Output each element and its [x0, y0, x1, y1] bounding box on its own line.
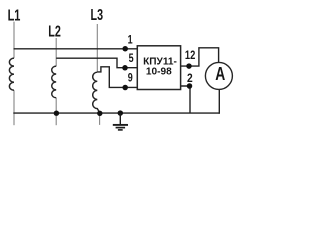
wire L1 lead (vertical, below coil through bus) [13, 90, 15, 125]
inductor L3 [93, 72, 100, 112]
wire pin 2 (box to down lead) [181, 86, 190, 113]
node bus-L3 junction [97, 111, 102, 116]
svg-text:9: 9 [128, 71, 133, 85]
svg-text:10-98: 10-98 [146, 67, 172, 78]
wire L2 lead (vertical, below coil through bus) [55, 98, 57, 125]
node bus-L2 junction [54, 111, 59, 116]
wire ammeter bottom to bus [218, 89, 220, 113]
wire pin 12 (box to ammeter loop) [181, 48, 219, 66]
ground [113, 113, 128, 130]
node pin 9 dot [122, 85, 128, 91]
wire L3 stub below bus [99, 113, 101, 125]
device U1 box [137, 46, 180, 90]
svg-text:5: 5 [129, 51, 134, 65]
node bus-ground junction [118, 110, 124, 116]
node pin 12 dot [186, 63, 192, 69]
inductor L1 [9, 58, 14, 90]
wire pin 1 (L1 to box) [14, 48, 138, 50]
wire bottom bus [13, 112, 219, 114]
svg-text:L3: L3 [91, 7, 104, 24]
wire pin 9 (L3 coil top to box, stepped) [97, 67, 137, 88]
ammeter U2 circle [205, 62, 232, 89]
node pin 2 dot [187, 83, 193, 89]
wire pin 5 (L2 to box with jog) [56, 58, 137, 67]
wire L3 lead (vertical, top) [96, 24, 98, 72]
node pin 1 dot [122, 46, 128, 52]
wire L2 lead (vertical, top) [55, 38, 57, 66]
svg-text:2: 2 [187, 71, 193, 85]
wire L1 lead (vertical, top) [13, 22, 15, 59]
svg-text:1: 1 [128, 33, 133, 47]
svg-text:КПУ11-: КПУ11- [143, 56, 177, 67]
node pin 5 dot [122, 65, 128, 71]
svg-text:12: 12 [185, 48, 196, 62]
inductor L2 [52, 66, 57, 98]
svg-text:A: A [215, 64, 225, 84]
svg-text:L2: L2 [48, 24, 61, 41]
